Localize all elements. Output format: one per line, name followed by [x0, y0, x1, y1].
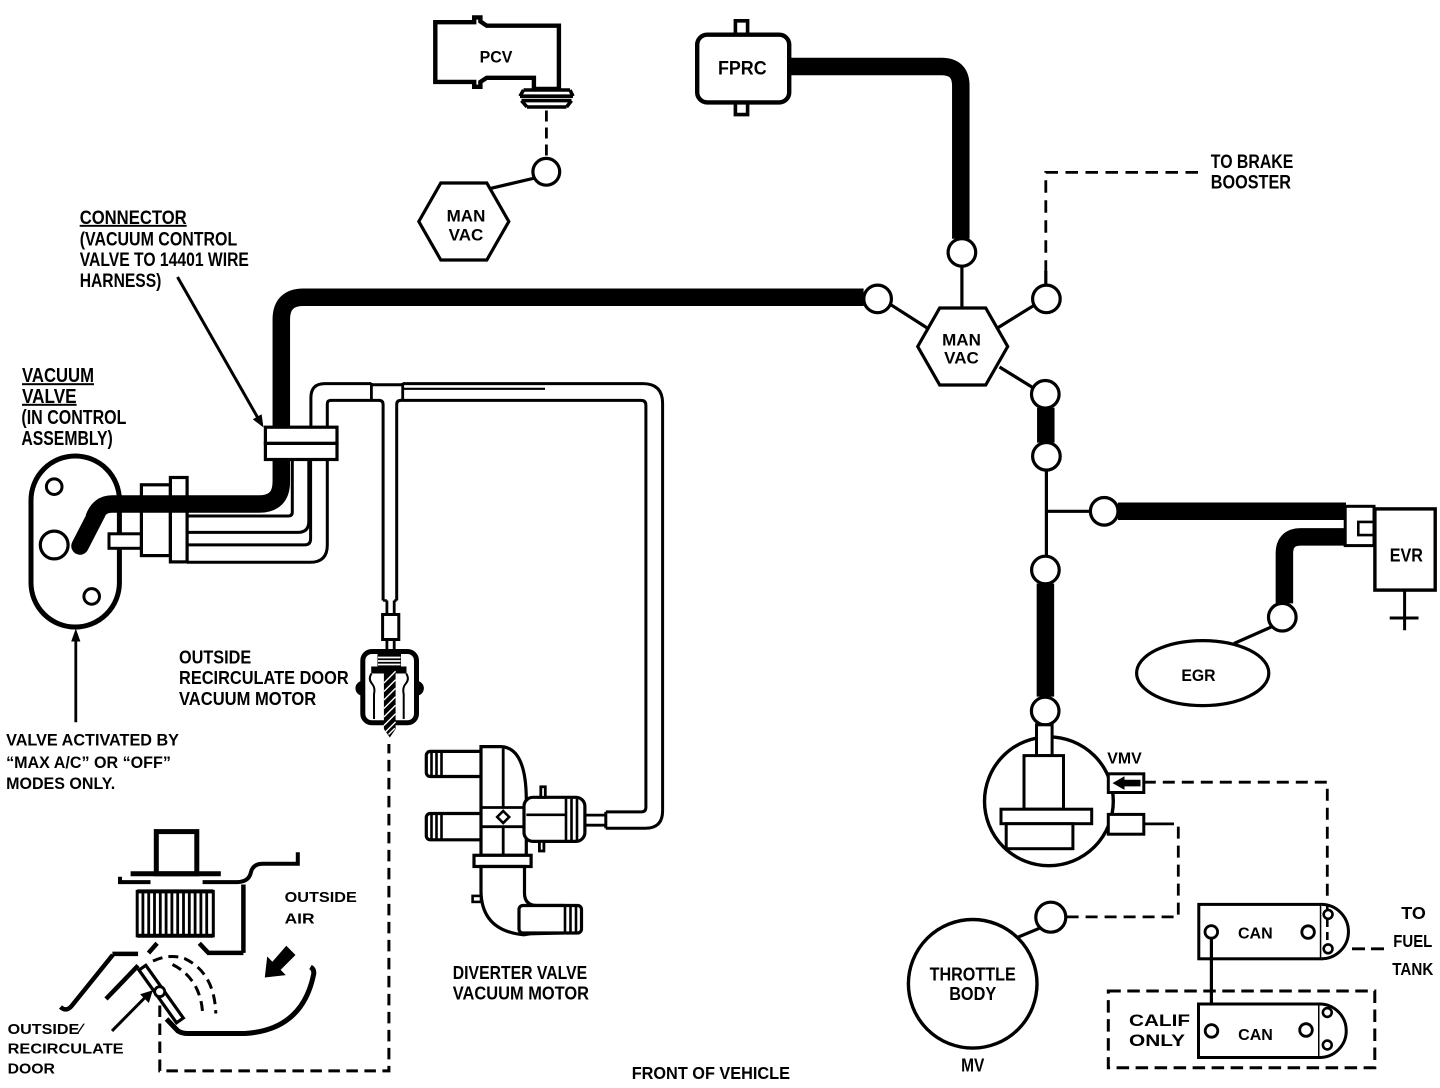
svg-text:OUTSIDE: OUTSIDE — [285, 889, 357, 906]
motor shoulder bar — [371, 667, 406, 674]
wire dashed end to circle — [1044, 271, 1047, 285]
vacuum valve small hole top — [46, 479, 62, 495]
svg-text:OUTSIDE∕: OUTSIDE∕ — [8, 1021, 86, 1038]
CAN 1 port circles — [1205, 926, 1218, 939]
diverter valve mid-left hose port — [426, 814, 484, 840]
dashed through CAN 1 end — [1326, 906, 1329, 946]
PCV hose nipple cap — [520, 90, 573, 107]
FPRC bottom tab — [735, 102, 747, 114]
VMV arrow port — [1108, 774, 1144, 793]
svg-text:TO BRAKE: TO BRAKE — [1211, 152, 1294, 173]
svg-text:TO: TO — [1401, 903, 1426, 923]
tee collar — [371, 383, 402, 401]
svg-text:CAN: CAN — [1238, 1027, 1273, 1044]
dashes to fuel tank — [1352, 947, 1388, 950]
leader arrow to recirculate door — [112, 996, 147, 1031]
svg-text:VALVE ACTIVATED BY: VALVE ACTIVATED BY — [6, 731, 180, 750]
duct floor scroll — [167, 967, 314, 1034]
svg-text:DOOR: DOOR — [8, 1061, 55, 1078]
thick hose EVR fitting to EGR circle — [1284, 537, 1348, 604]
stub pipe to barrel — [109, 534, 141, 549]
svg-text:CALIF: CALIF — [1129, 1011, 1190, 1030]
MAN VAC hexagon (left) — [419, 183, 509, 260]
thin hose B above connector to tee — [311, 384, 372, 428]
svg-text:VALVE TO 14401 WIRE: VALVE TO 14401 WIRE — [80, 250, 249, 271]
diverter valve body — [481, 747, 526, 856]
wire circle to right MAN VAC hexagon — [960, 266, 963, 308]
svg-text:VACUUM MOTOR: VACUUM MOTOR — [179, 689, 316, 709]
motor hose collar — [383, 615, 399, 640]
connector circle (below hexagon) — [1032, 381, 1060, 409]
svg-text:CONNECTOR: CONNECTOR — [80, 208, 187, 229]
svg-text:VMV: VMV — [1107, 750, 1142, 767]
body center diamond — [497, 811, 509, 823]
svg-text:MV: MV — [961, 1055, 984, 1075]
svg-text:HARNESS): HARNESS) — [80, 271, 162, 292]
wire down to junction — [1045, 470, 1048, 556]
connector circle — [1033, 443, 1061, 471]
hose sleeve line — [403, 388, 545, 390]
recirc inlet inner wall — [106, 966, 138, 999]
diverter valve flange — [474, 855, 531, 866]
neck below collar — [387, 640, 394, 652]
elbow left stub — [473, 896, 481, 902]
diverter valve right port — [524, 797, 585, 841]
motor left ear — [357, 683, 363, 695]
connector block (vacuum control valve to 14401 wire harness) — [265, 427, 337, 443]
recirculate door flap — [139, 965, 183, 1023]
air plenum top box — [156, 832, 197, 874]
CAN 2 rounded end — [1320, 1004, 1347, 1058]
duct bottom wall and funnel — [199, 943, 243, 953]
neck above motor collar — [387, 601, 394, 615]
svg-text:“MAX A/C” OR “OFF”: “MAX A/C” OR “OFF” — [6, 753, 171, 772]
FPRC top tab — [735, 21, 747, 35]
thick hose segment down to VMV — [1037, 584, 1055, 697]
svg-text:FRONT OF VEHICLE: FRONT OF VEHICLE — [632, 1063, 790, 1083]
svg-text:MAN: MAN — [447, 207, 486, 226]
diverter valve top-left hose port — [426, 751, 484, 776]
svg-text:BOOSTER: BOOSTER — [1211, 172, 1291, 193]
dashed line VMV arrow port to canister — [1144, 782, 1328, 901]
svg-text:MAN: MAN — [942, 331, 981, 350]
right port inner line — [526, 813, 565, 816]
plenum lid bar — [131, 871, 221, 876]
wire junction to EVR circle — [1046, 510, 1091, 513]
svg-text:RECIRCULATE: RECIRCULATE — [8, 1041, 124, 1058]
CAN canister 2 body — [1199, 1004, 1320, 1058]
hose end cap — [604, 812, 607, 828]
motor right ear — [417, 683, 423, 695]
door pivot — [155, 987, 165, 997]
svg-text:EVR: EVR — [1390, 545, 1423, 565]
svg-text:FPRC: FPRC — [718, 59, 767, 80]
door swing dashed position — [153, 957, 216, 1014]
recirc inlet outer wall with curl — [61, 955, 113, 1010]
THROTTLE BODY circle — [908, 920, 1037, 1049]
connector circle (FPRC hose) — [948, 239, 976, 267]
CAN canister 1 body — [1199, 904, 1322, 958]
branch neck ticks — [383, 599, 397, 601]
svg-text:ASSEMBLY): ASSEMBLY) — [21, 428, 112, 450]
EGR ellipse — [1137, 641, 1269, 706]
wire circle to EGR ellipse — [1234, 626, 1273, 643]
VMV inlet stem — [1037, 725, 1053, 756]
EVR box — [1375, 509, 1435, 590]
PCV valve body outline — [435, 17, 559, 89]
connector circle — [1032, 556, 1060, 584]
CAN 2 port circles — [1205, 1025, 1218, 1038]
wire circle to right hexagon upper-right — [998, 305, 1035, 328]
tube to hose — [585, 815, 606, 825]
VMV solenoid circle — [985, 737, 1114, 866]
connector circle (throttle body) — [1036, 902, 1066, 932]
svg-text:OUTSIDE: OUTSIDE — [179, 647, 251, 667]
connector circle (EGR hose) — [1269, 603, 1297, 631]
body cross lines — [481, 749, 526, 855]
svg-text:TANK: TANK — [1392, 959, 1433, 979]
dashed line PCV to MAN VAC circle — [545, 111, 548, 159]
CALIF ONLY dashed box — [1108, 991, 1375, 1068]
outside air arrow (filled) — [265, 946, 296, 978]
recirc inlet left wall piece — [112, 952, 138, 957]
wire circle to throttle body — [1011, 928, 1041, 941]
svg-text:VAC: VAC — [449, 226, 484, 245]
thick hose segment — [1037, 408, 1055, 443]
wire CAN1 to CAN2 — [1210, 938, 1213, 1024]
right port ribs — [566, 799, 577, 840]
svg-text:DIVERTER VALVE: DIVERTER VALVE — [453, 963, 587, 983]
thin hose B lower run (flange up to connector) — [187, 459, 311, 545]
connector circle (EVR branch) — [1090, 498, 1118, 526]
vacuum valve stadium body — [31, 456, 119, 627]
connector circle (brake booster) — [1033, 285, 1061, 313]
svg-text:VALVE: VALVE — [22, 386, 77, 408]
barrel fitting on main hose — [141, 485, 170, 556]
svg-text:AIR: AIR — [285, 910, 315, 927]
connector circle (VMV top) — [1031, 697, 1059, 725]
motor diaphragm cup lines — [370, 674, 408, 720]
dashed line TO BRAKE BOOSTER — [1046, 172, 1198, 272]
right port stems — [541, 787, 546, 798]
lid lower-left line with hook — [120, 877, 151, 882]
wire circle to right hexagon upper-left — [890, 304, 928, 328]
barrel flange plate — [170, 478, 187, 562]
filter grille — [137, 891, 213, 935]
vacuum valve small hole bottom — [84, 589, 100, 605]
svg-text:ONLY: ONLY — [1129, 1031, 1186, 1050]
elbow bottom port — [519, 906, 582, 934]
svg-text:PCV: PCV — [480, 49, 513, 67]
svg-text:MODES ONLY.: MODES ONLY. — [6, 774, 115, 793]
svg-text:BODY: BODY — [949, 984, 996, 1004]
lid lower-right line curving to inlet — [203, 852, 298, 882]
thick main vacuum hose (vacuum valve to MAN VAC circle) — [80, 513, 97, 546]
leader arrow to connector — [178, 277, 259, 419]
dashed vacuum circuit door to motor — [160, 744, 389, 1071]
funnel left diagonal — [149, 943, 158, 953]
MAN VAC hexagon (right) — [918, 308, 1008, 385]
svg-text:THROTTLE: THROTTLE — [930, 965, 1016, 985]
outside recirculate door vacuum motor body — [363, 652, 417, 723]
vacuum valve big hole — [40, 531, 68, 559]
svg-text:RECIRCULATE DOOR: RECIRCULATE DOOR — [179, 668, 349, 688]
VMV pedestal — [1024, 756, 1064, 810]
wire circle to left MAN VAC hexagon — [491, 178, 535, 188]
solid lead from VMV lower port — [1144, 823, 1162, 826]
motor plunger (hatched) — [384, 674, 396, 738]
FPRC solenoid box — [697, 35, 789, 103]
tee branch down to recirculate door motor — [379, 400, 401, 600]
thick hose to EVR — [1118, 503, 1346, 521]
svg-text:VACUUM MOTOR: VACUUM MOTOR — [453, 983, 589, 1003]
wire hexagon to lower-right circle — [1000, 367, 1034, 388]
motor top ribbed block — [378, 654, 402, 669]
duct right vertical wall — [241, 885, 246, 953]
dashed line VMV lower port to throttle circle — [1066, 824, 1178, 917]
leader arrow to vacuum valve — [74, 640, 77, 722]
thin hose main run to diverter valve (C shape) — [403, 384, 663, 829]
svg-text:CAN: CAN — [1238, 926, 1273, 943]
svg-text:(VACUUM CONTROL: (VACUUM CONTROL — [80, 229, 238, 250]
EVR inlet fitting — [1345, 506, 1374, 545]
thin hose A upper (flange to connector) — [187, 459, 292, 516]
diverter valve lower elbow — [481, 867, 563, 935]
connector circle (main hose end) — [864, 285, 892, 313]
svg-text:(IN CONTROL: (IN CONTROL — [21, 407, 126, 429]
svg-text:EGR: EGR — [1181, 667, 1215, 685]
thick vacuum hose FPRC to MAN VAC — [789, 67, 961, 239]
CAN 1 rounded end — [1321, 904, 1348, 958]
EVR ground stub — [1390, 590, 1419, 630]
svg-text:FUEL: FUEL — [1393, 931, 1432, 951]
connector circle (PCV / MAN VAC) — [533, 158, 560, 185]
svg-text:VACUUM: VACUUM — [22, 365, 94, 387]
svg-text:VAC: VAC — [944, 349, 979, 368]
VMV lower port — [1108, 814, 1144, 834]
